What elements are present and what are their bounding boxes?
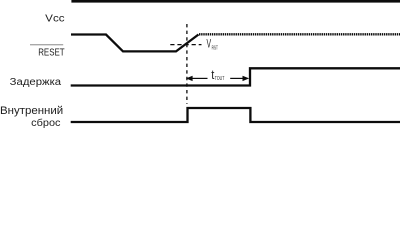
node VRST threshold dashed line <box>170 44 201 46</box>
svg-text:сброс: сброс <box>31 117 60 129</box>
wire tTOUT arrow left shaft <box>192 77 208 79</box>
svg-text:Vcc: Vcc <box>45 13 64 25</box>
wire RESET waveform dotted continuation <box>199 33 400 35</box>
svg-text:RST: RST <box>212 45 219 51</box>
node timing reference vertical dashed line <box>186 24 188 104</box>
wire delay (Zaderzhka) waveform <box>71 68 400 85</box>
node tTOUT arrow left head <box>186 76 193 81</box>
svg-text:V: V <box>207 39 212 51</box>
svg-text:TOUT: TOUT <box>215 76 225 82</box>
svg-text:Внутренний: Внутренний <box>0 105 63 117</box>
wire RESET waveform solid <box>71 35 199 52</box>
wire internal reset waveform <box>71 108 400 122</box>
wire Vcc supply line (top, clipped) <box>71 0 400 3</box>
svg-text:Задержка: Задержка <box>10 77 62 88</box>
wire tTOUT arrow right shaft <box>230 77 243 79</box>
node RESET overline <box>30 44 63 46</box>
node tTOUT arrow right head <box>243 76 250 81</box>
svg-text:RESET: RESET <box>38 48 64 59</box>
